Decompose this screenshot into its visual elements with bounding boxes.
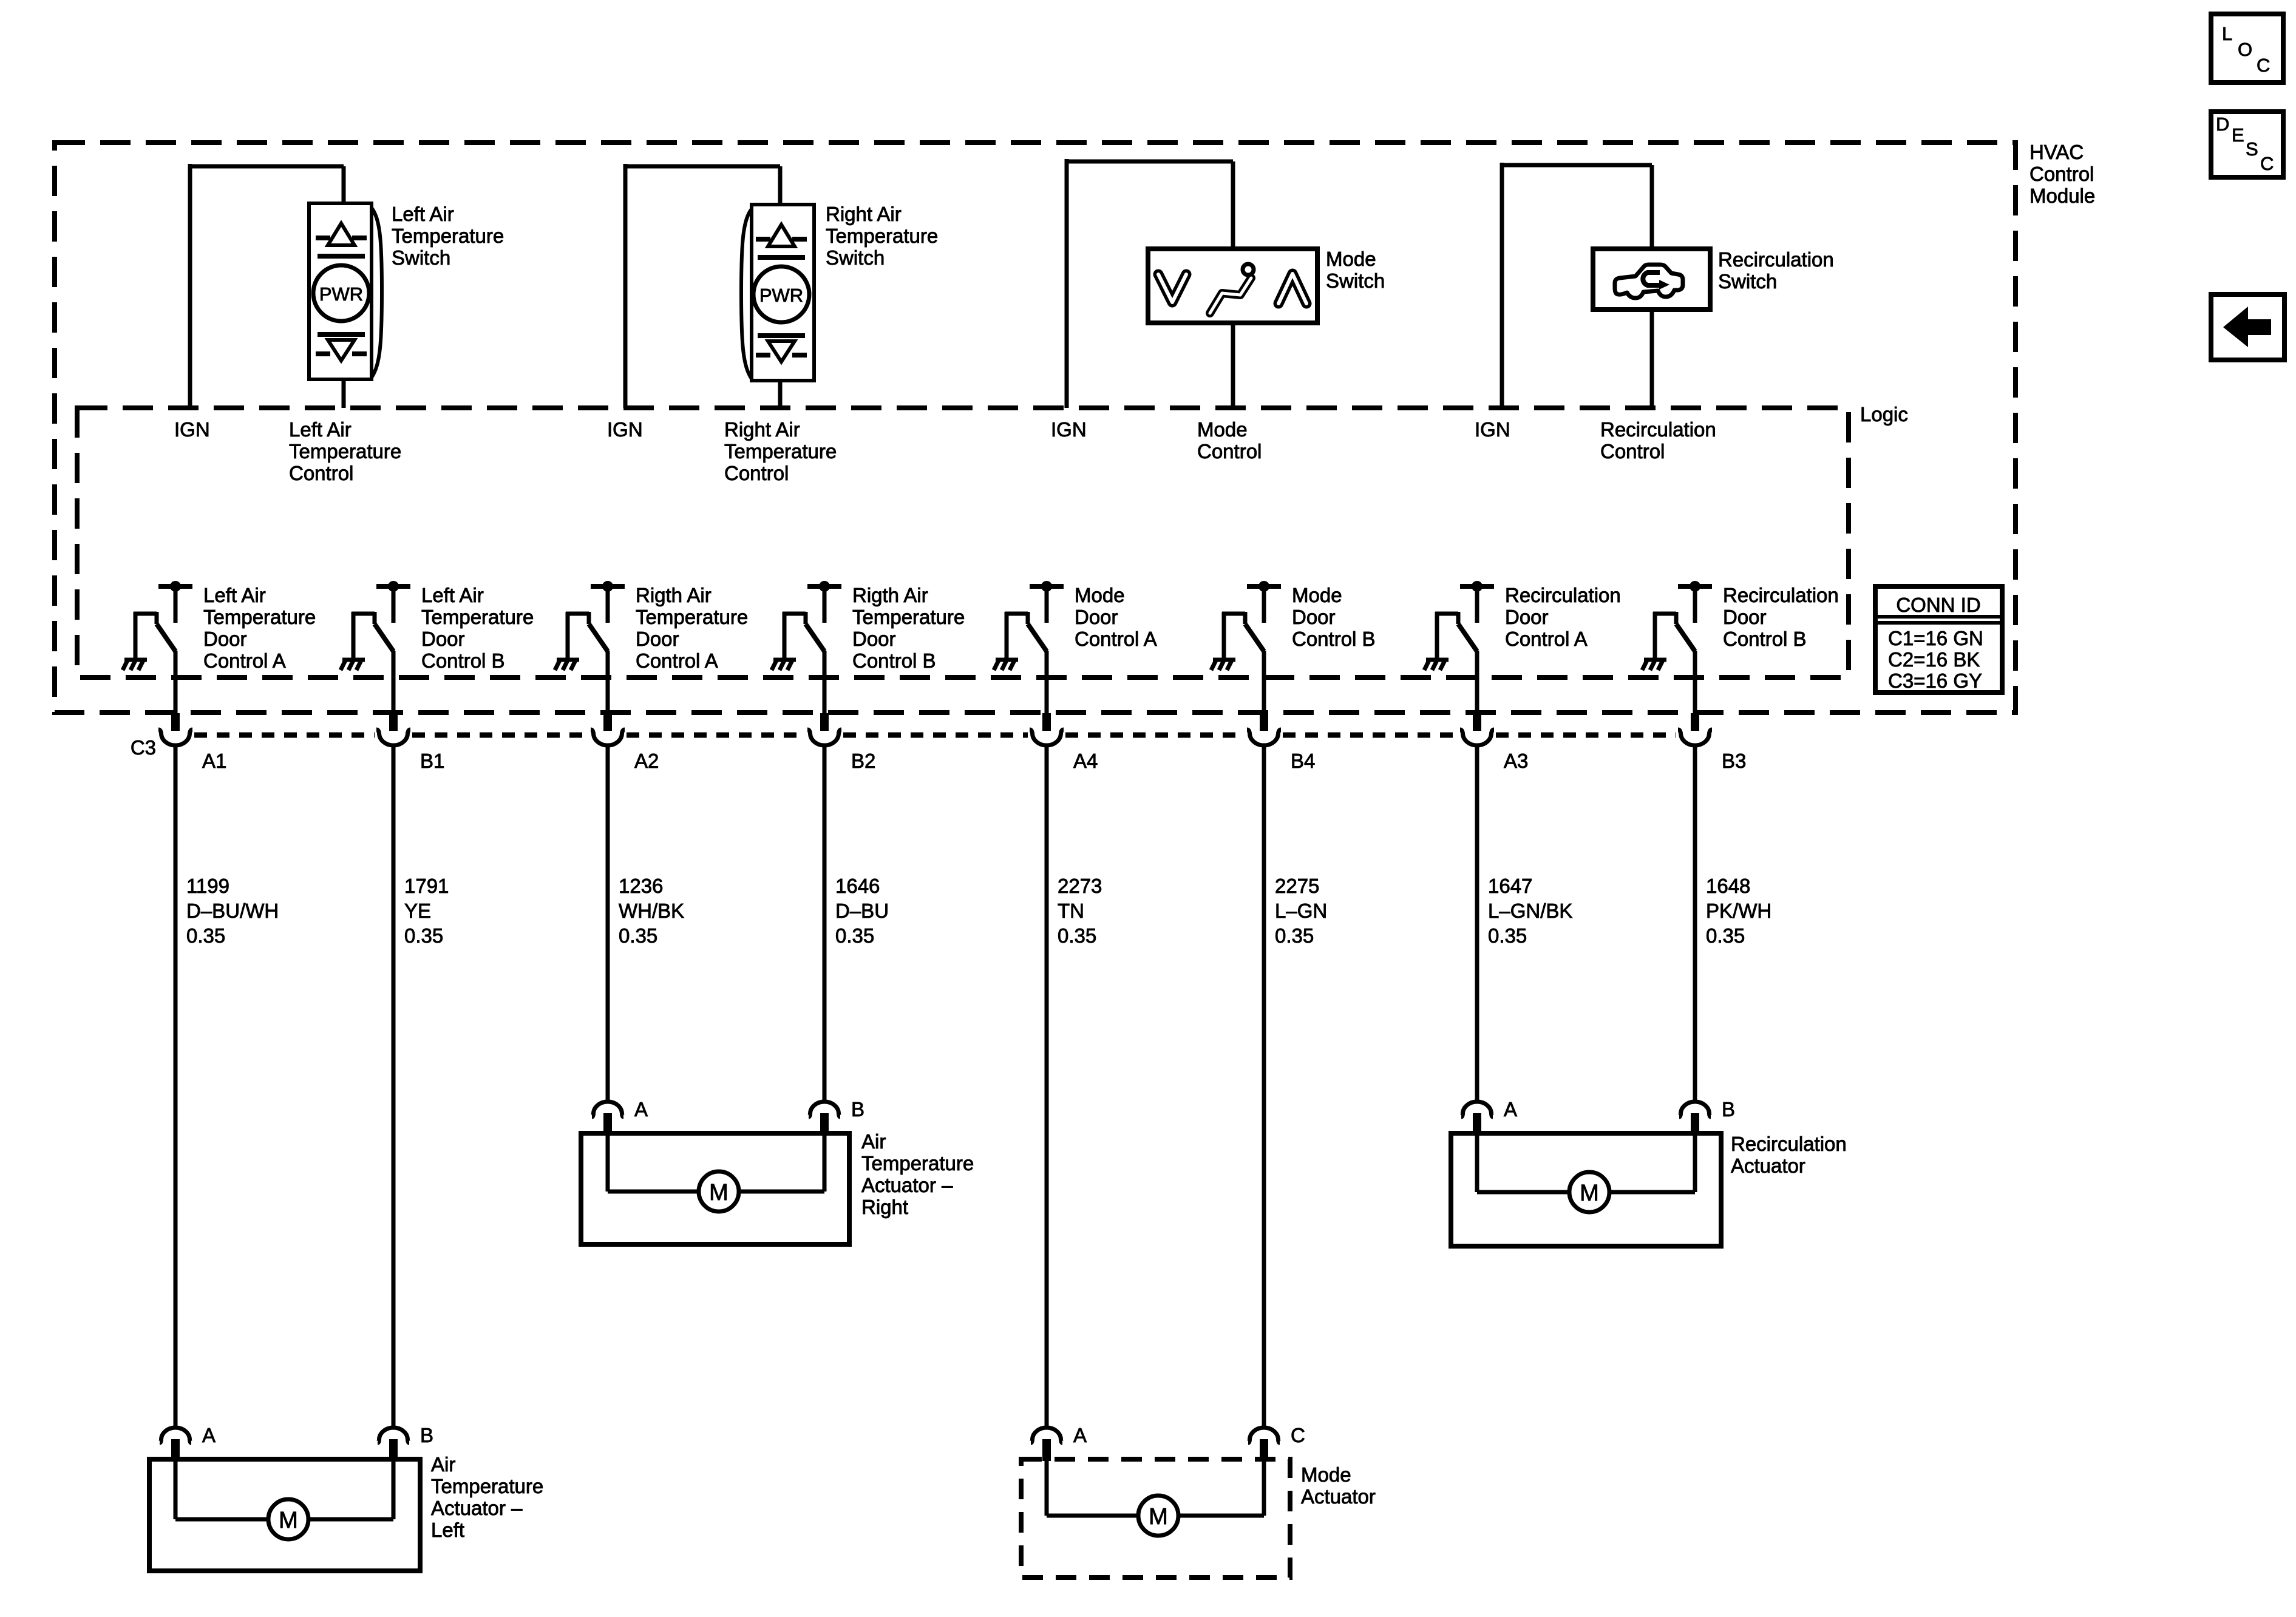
- svg-text:Left Air: Left Air: [421, 584, 484, 606]
- svg-text:Temperature: Temperature: [421, 606, 534, 628]
- node IGN (circuit 1): [174, 418, 210, 441]
- svg-text:PWR: PWR: [759, 285, 803, 306]
- Mode Actuator box (dashed): [1021, 1459, 1290, 1578]
- svg-text:1647: 1647: [1488, 875, 1532, 897]
- svg-text:Left: Left: [431, 1519, 464, 1541]
- wire label 1648 PK/WH 0.35: [1706, 875, 1771, 947]
- svg-text:Module: Module: [2029, 185, 2095, 207]
- wire 1236 WH/BK: [606, 745, 610, 1100]
- pin label A3: [1504, 750, 1528, 772]
- svg-text:HVAC: HVAC: [2029, 141, 2084, 163]
- pin label B4: [1291, 750, 1315, 772]
- svg-text:YE: YE: [404, 900, 431, 922]
- ground (chassis) for Mode Control B: [1211, 659, 1235, 670]
- LOC reference box: [2211, 14, 2283, 83]
- svg-text:1236: 1236: [619, 875, 663, 897]
- svg-text:Temperature: Temperature: [636, 606, 748, 628]
- svg-text:C: C: [1291, 1424, 1305, 1446]
- pin label B: [420, 1424, 433, 1446]
- svg-text:1646: 1646: [835, 875, 880, 897]
- HVAC Control Module label: [2029, 141, 2095, 207]
- svg-text:A3: A3: [1504, 750, 1528, 772]
- wire from driver B2 down to module connector: [823, 651, 827, 714]
- svg-text:Temperature: Temperature: [826, 225, 938, 247]
- svg-text:Actuator: Actuator: [1731, 1154, 1805, 1177]
- svg-text:C: C: [2257, 55, 2270, 76]
- motor M (recirculation actuator): [1477, 1135, 1695, 1212]
- svg-text:C3: C3: [131, 736, 156, 759]
- wire 1646 D–BU: [823, 745, 827, 1100]
- svg-text:B: B: [1722, 1098, 1735, 1120]
- Logic label: [1860, 403, 1908, 425]
- svg-text:Door: Door: [1292, 606, 1336, 628]
- svg-text:B3: B3: [1722, 750, 1746, 772]
- label: Rigth Air Temperature Door Control B: [852, 584, 965, 672]
- svg-text:L–GN: L–GN: [1275, 900, 1327, 922]
- module connector pin B4: [1247, 713, 1281, 745]
- HVAC Control Module box: [55, 143, 2016, 713]
- svg-text:Temperature: Temperature: [289, 440, 401, 463]
- CONN ID table: [1875, 586, 2002, 693]
- svg-text:Rigth Air: Rigth Air: [852, 584, 928, 606]
- svg-text:A: A: [1504, 1098, 1517, 1120]
- Air Temperature Actuator - Left label: [431, 1453, 543, 1541]
- svg-text:PK/WH: PK/WH: [1706, 900, 1771, 922]
- wire 2273 TN: [1045, 745, 1049, 1426]
- svg-text:Actuator –: Actuator –: [861, 1174, 953, 1196]
- label: Mode Door Control B: [1292, 584, 1376, 650]
- svg-text:S: S: [2246, 138, 2258, 160]
- wire label 2275 L–GN 0.35: [1275, 875, 1327, 947]
- pin label B: [851, 1098, 864, 1120]
- switch S3: Mode Switch: [1148, 249, 1317, 323]
- svg-text:IGN: IGN: [1475, 418, 1510, 441]
- svg-text:A: A: [202, 1424, 216, 1446]
- Mode Actuator label: [1301, 1463, 1376, 1508]
- svg-text:D: D: [2216, 114, 2229, 135]
- wire from driver B3 down to module connector: [1693, 651, 1697, 714]
- svg-text:D–BU: D–BU: [835, 900, 889, 922]
- svg-text:Temperature: Temperature: [852, 606, 965, 628]
- wire 1199 D–BU/WH: [174, 745, 178, 1426]
- svg-text:Mode: Mode: [1292, 584, 1342, 606]
- svg-text:Recirculation: Recirculation: [1731, 1133, 1847, 1155]
- wire: IGN feed + Mode Switch supply: [1067, 159, 1233, 408]
- svg-text:Recirculation: Recirculation: [1600, 418, 1716, 441]
- svg-text:M: M: [1580, 1181, 1599, 1206]
- svg-text:Actuator –: Actuator –: [431, 1497, 523, 1519]
- pin label A: [202, 1424, 216, 1446]
- svg-text:M: M: [1149, 1504, 1168, 1530]
- wire label 1199 D–BU/WH 0.35: [186, 875, 279, 947]
- svg-text:B2: B2: [851, 750, 875, 772]
- ground (chassis) for Left Air Control A: [123, 659, 147, 670]
- svg-text:Right: Right: [861, 1196, 908, 1218]
- motor M (air temperature actuator left): [175, 1461, 393, 1539]
- svg-text:Rigth Air: Rigth Air: [636, 584, 712, 606]
- svg-text:IGN: IGN: [174, 418, 210, 441]
- svg-text:Control: Control: [1600, 440, 1665, 463]
- label: Left Air Temperature Door Control A: [203, 584, 316, 672]
- switch S4: Recirculation Switch: [1593, 249, 1710, 310]
- svg-text:0.35: 0.35: [186, 924, 225, 947]
- pin label C: [1291, 1424, 1305, 1446]
- svg-text:Switch: Switch: [392, 246, 450, 269]
- Q7 Recirculation Door Control A driver (switch-to-ground symbol): [1435, 581, 1494, 658]
- svg-text:Actuator: Actuator: [1301, 1485, 1376, 1508]
- ground (chassis) for Rigth Air Control A: [555, 659, 579, 670]
- connector C3 dotted separation line: [194, 733, 1676, 738]
- ground (chassis) for Recirculation Control A: [1424, 659, 1449, 670]
- svg-text:Control B: Control B: [421, 649, 505, 672]
- svg-text:Recirculation: Recirculation: [1718, 248, 1834, 271]
- svg-text:0.35: 0.35: [1275, 924, 1314, 947]
- Logic block box: [77, 408, 1849, 677]
- svg-text:Right Air: Right Air: [724, 418, 800, 441]
- svg-text:Control: Control: [289, 462, 353, 484]
- wire from driver A3 down to module connector: [1475, 651, 1479, 714]
- svg-text:Temperature: Temperature: [392, 225, 504, 247]
- wire from driver B1 down to module connector: [392, 651, 396, 714]
- actuator connector pins A,C (Mode Actuator): [1031, 1428, 1280, 1461]
- wire label 1647 L–GN/BK 0.35: [1488, 875, 1572, 947]
- svg-text:IGN: IGN: [607, 418, 643, 441]
- svg-text:0.35: 0.35: [1058, 924, 1096, 947]
- svg-text:Mode: Mode: [1197, 418, 1248, 441]
- Air Temperature Actuator - Left box: [149, 1459, 420, 1571]
- svg-text:M: M: [279, 1508, 298, 1533]
- pin label A: [1504, 1098, 1517, 1120]
- Q3 Right Air Temperature Door Control A driver (switch-to-ground symbol): [566, 581, 625, 658]
- svg-text:2273: 2273: [1058, 875, 1102, 897]
- pin label A2: [634, 750, 659, 772]
- svg-text:Control: Control: [724, 462, 789, 484]
- svg-text:Temperature: Temperature: [861, 1152, 974, 1175]
- net: Right Air Temperature Control: [724, 418, 837, 484]
- ground (chassis) for Mode Control A: [994, 659, 1018, 670]
- wire: IGN feed + Recirculation Switch supply: [1502, 163, 1652, 408]
- svg-text:Left Air: Left Air: [392, 203, 454, 225]
- Air Temperature Actuator - Right label: [861, 1130, 974, 1218]
- svg-text:A: A: [634, 1098, 648, 1120]
- svg-text:Door: Door: [203, 628, 247, 650]
- Q2 Left Air Temperature Door Control B driver (switch-to-ground symbol): [352, 581, 410, 658]
- wire label 2273 TN 0.35: [1058, 875, 1102, 947]
- wire from driver B4 down to module connector: [1262, 651, 1266, 714]
- switch S2: Right Air Temperature Switch (rocker): [741, 205, 814, 381]
- svg-text:C2=16 BK: C2=16 BK: [1888, 648, 1980, 671]
- Recirculation Actuator box: [1451, 1133, 1721, 1246]
- pin label B3: [1722, 750, 1746, 772]
- svg-text:Mode: Mode: [1301, 1463, 1351, 1486]
- switch S1: Left Air Temperature Switch (rocker): [309, 203, 382, 379]
- svg-text:Control: Control: [2029, 163, 2094, 185]
- node IGN (circuit 3): [1051, 418, 1087, 441]
- pin label A: [1073, 1424, 1087, 1446]
- svg-text:Air: Air: [431, 1453, 455, 1476]
- svg-text:O: O: [2238, 39, 2252, 60]
- svg-text:B4: B4: [1291, 750, 1315, 772]
- label: Left Air Temperature Door Control B: [421, 584, 534, 672]
- svg-text:Switch: Switch: [826, 246, 885, 269]
- svg-text:Control B: Control B: [1723, 628, 1807, 650]
- pin label B: [1722, 1098, 1735, 1120]
- Right Air Temperature Switch label: [826, 203, 938, 269]
- pin label B1: [420, 750, 444, 772]
- module connector pin B2: [807, 713, 841, 745]
- net: Left Air Temperature Control: [289, 418, 401, 484]
- connector id C3 label: [131, 736, 156, 759]
- label: Rigth Air Temperature Door Control A: [636, 584, 748, 672]
- wire label 1791 YE 0.35: [404, 875, 449, 947]
- label: Mode Door Control A: [1075, 584, 1157, 650]
- wire from driver A1 down to module connector: [174, 651, 178, 714]
- node IGN (circuit 2): [607, 418, 643, 441]
- motor M (air temperature actuator right): [608, 1135, 824, 1212]
- actuator connector pins A,B (Recirculation Actuator): [1461, 1102, 1711, 1135]
- pin label B2: [851, 750, 875, 772]
- module connector pin A2: [591, 713, 625, 745]
- svg-text:Air: Air: [861, 1130, 886, 1153]
- svg-text:Temperature: Temperature: [431, 1475, 543, 1497]
- svg-text:C3=16 GY: C3=16 GY: [1888, 670, 1982, 692]
- svg-text:D–BU/WH: D–BU/WH: [186, 900, 279, 922]
- module connector pin A3: [1460, 713, 1494, 745]
- wire 1647 L–GN/BK: [1475, 745, 1479, 1100]
- svg-text:1791: 1791: [404, 875, 449, 897]
- svg-text:0.35: 0.35: [619, 924, 657, 947]
- pin label A: [634, 1098, 648, 1120]
- svg-text:2275: 2275: [1275, 875, 1319, 897]
- svg-text:CONN ID: CONN ID: [1896, 594, 1980, 616]
- svg-text:Temperature: Temperature: [724, 440, 837, 463]
- svg-text:Door: Door: [1723, 606, 1767, 628]
- wire label 1646 D–BU 0.35: [835, 875, 889, 947]
- svg-text:A: A: [1073, 1424, 1087, 1446]
- svg-text:C: C: [2260, 153, 2274, 174]
- svg-text:M: M: [709, 1180, 729, 1205]
- module connector pin B1: [376, 713, 410, 745]
- svg-text:0.35: 0.35: [404, 924, 443, 947]
- svg-text:Recirculation: Recirculation: [1505, 584, 1621, 606]
- svg-text:Control A: Control A: [636, 649, 718, 672]
- wire 1648 PK/WH: [1693, 745, 1697, 1100]
- net: Mode Control: [1197, 418, 1262, 463]
- svg-text:A2: A2: [634, 750, 659, 772]
- svg-text:Door: Door: [1075, 606, 1118, 628]
- Q8 Recirculation Door Control B driver (switch-to-ground symbol): [1653, 581, 1712, 658]
- label: Recirculation Door Control A: [1505, 584, 1621, 650]
- Q6 Mode Door Control B driver (switch-to-ground symbol): [1222, 581, 1281, 658]
- wire: IGN feed + Left Air Temperature Switch supply: [190, 164, 344, 408]
- svg-text:E: E: [2232, 124, 2244, 146]
- svg-text:0.35: 0.35: [835, 924, 874, 947]
- Recirculation Actuator label: [1731, 1133, 1847, 1177]
- svg-text:Door: Door: [852, 628, 896, 650]
- wire: IGN feed + Right Air Temperature Switch supply: [625, 164, 780, 408]
- wire 2275 L–GN: [1262, 745, 1266, 1426]
- svg-text:Left Air: Left Air: [203, 584, 266, 606]
- svg-text:L: L: [2222, 23, 2232, 44]
- svg-text:Door: Door: [636, 628, 679, 650]
- svg-text:Temperature: Temperature: [203, 606, 316, 628]
- svg-text:1199: 1199: [186, 875, 229, 897]
- svg-text:Mode: Mode: [1075, 584, 1125, 606]
- svg-text:0.35: 0.35: [1706, 924, 1745, 947]
- pin label A4: [1073, 750, 1098, 772]
- svg-text:Control: Control: [1197, 440, 1262, 463]
- label: Recirculation Door Control B: [1723, 584, 1839, 650]
- module connector pin A4: [1030, 713, 1064, 745]
- svg-text:L–GN/BK: L–GN/BK: [1488, 900, 1572, 922]
- motor M (mode actuator): [1047, 1461, 1264, 1536]
- svg-text:Door: Door: [421, 628, 465, 650]
- svg-text:WH/BK: WH/BK: [619, 900, 684, 922]
- net: Recirculation Control: [1600, 418, 1716, 463]
- pin label A1: [202, 750, 226, 772]
- node IGN (circuit 4): [1475, 418, 1510, 441]
- svg-text:1648: 1648: [1706, 875, 1750, 897]
- wire 1791 YE: [392, 745, 396, 1426]
- svg-text:Door: Door: [1505, 606, 1549, 628]
- ground (chassis) for Left Air Control B: [341, 659, 365, 670]
- Left Air Temperature Switch label: [392, 203, 504, 269]
- wire from driver A4 down to module connector: [1045, 651, 1049, 714]
- ground (chassis) for Rigth Air Control B: [772, 659, 796, 670]
- svg-text:Control B: Control B: [1292, 628, 1376, 650]
- Recirculation Switch label: [1718, 248, 1834, 293]
- svg-text:Left Air: Left Air: [289, 418, 352, 441]
- svg-text:Recirculation: Recirculation: [1723, 584, 1839, 606]
- svg-text:TN: TN: [1058, 900, 1084, 922]
- svg-text:Control A: Control A: [203, 649, 286, 672]
- svg-text:Control A: Control A: [1075, 628, 1157, 650]
- svg-text:PWR: PWR: [319, 283, 363, 305]
- Air Temperature Actuator - Right box: [581, 1133, 849, 1244]
- svg-text:A4: A4: [1073, 750, 1098, 772]
- svg-text:Control B: Control B: [852, 649, 936, 672]
- Q5 Mode Door Control A driver (switch-to-ground symbol): [1005, 581, 1064, 658]
- wire from driver A2 down to module connector: [606, 651, 610, 714]
- svg-text:Control A: Control A: [1505, 628, 1588, 650]
- actuator connector pins A,B (Air Temperature Actuator - Left): [160, 1428, 409, 1461]
- svg-text:A1: A1: [202, 750, 226, 772]
- actuator connector pins A,B (Air Temperature Actuator - Right): [592, 1102, 840, 1135]
- Mode Switch label: [1326, 248, 1385, 292]
- svg-text:B: B: [420, 1424, 433, 1446]
- svg-text:B: B: [851, 1098, 864, 1120]
- svg-text:IGN: IGN: [1051, 418, 1087, 441]
- svg-text:B1: B1: [420, 750, 444, 772]
- module connector pin A1: [158, 713, 192, 745]
- DESC reference box: [2211, 112, 2283, 177]
- svg-text:Mode: Mode: [1326, 248, 1376, 270]
- wire label 1236 WH/BK 0.35: [619, 875, 684, 947]
- svg-text:Right Air: Right Air: [826, 203, 902, 225]
- svg-text:0.35: 0.35: [1488, 924, 1527, 947]
- Q4 Right Air Temperature Door Control B driver (switch-to-ground symbol): [783, 581, 841, 658]
- svg-text:Logic: Logic: [1860, 403, 1908, 425]
- back navigation arrow box: [2211, 294, 2284, 360]
- svg-text:C1=16 GN: C1=16 GN: [1888, 627, 1983, 649]
- svg-text:Switch: Switch: [1718, 270, 1777, 293]
- ground (chassis) for Recirculation Control B: [1642, 659, 1666, 670]
- svg-text:Switch: Switch: [1326, 269, 1385, 292]
- Q1 Left Air Temperature Door Control A driver (switch-to-ground symbol): [134, 581, 192, 658]
- module connector pin B3: [1678, 713, 1712, 745]
